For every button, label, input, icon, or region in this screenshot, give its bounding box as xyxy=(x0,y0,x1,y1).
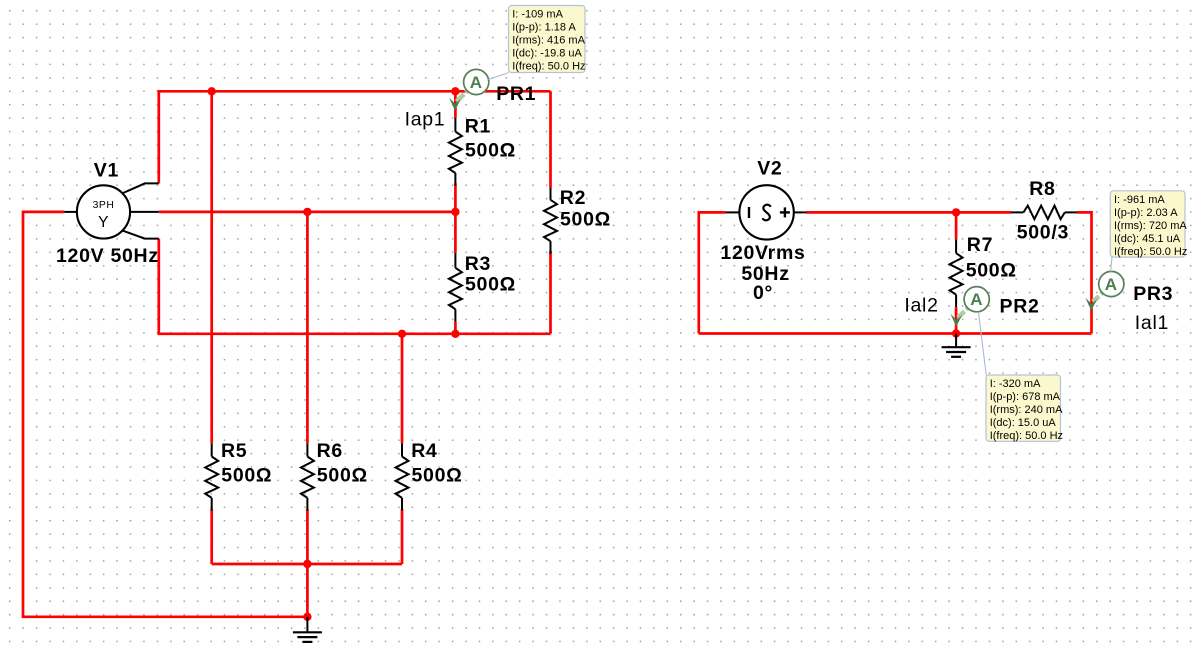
svg-text:A: A xyxy=(470,73,483,92)
svg-text:R4: R4 xyxy=(411,440,437,462)
wire V2 left to left rail and down xyxy=(699,212,726,333)
wire R3 top stub xyxy=(454,212,457,253)
svg-text:R5: R5 xyxy=(221,440,247,462)
callout connector PR1 xyxy=(488,73,509,80)
svg-text:A: A xyxy=(970,290,983,309)
junction connect rail / R6 xyxy=(303,560,311,568)
svg-text:A: A xyxy=(1105,275,1118,294)
svg-text:I: -320 mA: I: -320 mA xyxy=(990,378,1041,390)
junction bottom rail / R4 branch xyxy=(398,330,406,338)
svg-text:500Ω: 500Ω xyxy=(465,140,516,162)
svg-text:I(p-p): 678 mA: I(p-p): 678 mA xyxy=(990,391,1061,403)
wire V1 neutral to left edge, down and to ground rail xyxy=(23,212,307,617)
wire middle rail (V1 phase B to node R1/R3) xyxy=(159,211,456,214)
junction bottom rail / R7-ground xyxy=(952,329,960,337)
svg-text:I: -961 mA: I: -961 mA xyxy=(1114,194,1165,206)
svg-text:PR3: PR3 xyxy=(1133,283,1173,305)
svg-text:I(freq): 50.0 Hz: I(freq): 50.0 Hz xyxy=(1114,246,1187,258)
svg-text:500Ω: 500Ω xyxy=(560,209,611,231)
svg-text:Ial2: Ial2 xyxy=(904,295,938,317)
wire top rail (V1 phase A to R2 branch) xyxy=(159,91,551,183)
measurement callout PR2 xyxy=(986,375,1061,441)
ground symbol right circuit xyxy=(955,334,957,348)
wire bottom connect rail R5-R6-R4 xyxy=(212,563,402,566)
svg-text:0°: 0° xyxy=(753,282,773,304)
wire R4 bottom to connect rail xyxy=(401,509,404,564)
svg-text:I(dc): -19.8 uA: I(dc): -19.8 uA xyxy=(512,48,582,60)
svg-text:PR1: PR1 xyxy=(496,83,536,105)
svg-text:I(p-p): 1.18 A: I(p-p): 1.18 A xyxy=(512,22,576,34)
current probe PR3 xyxy=(1093,296,1099,301)
svg-text:500/3: 500/3 xyxy=(1017,222,1069,244)
resistor R7 xyxy=(955,239,957,253)
svg-text:120Vrms: 120Vrms xyxy=(720,242,805,264)
svg-text:500Ω: 500Ω xyxy=(966,260,1017,282)
svg-text:500Ω: 500Ω xyxy=(465,274,516,296)
svg-text:500Ω: 500Ω xyxy=(317,465,368,487)
wire R7 branch from top rail xyxy=(955,212,958,239)
svg-text:500Ω: 500Ω xyxy=(412,465,463,487)
resistor R6 xyxy=(306,443,308,456)
resistor R1 xyxy=(454,118,456,132)
resistor R5 xyxy=(211,443,213,456)
wire R3 bottom to bottom rail xyxy=(454,322,457,334)
wire R7 bottom to bottom rail xyxy=(955,307,958,333)
svg-text:120V 50Hz: 120V 50Hz xyxy=(56,245,159,267)
wire R1 bottom to middle node xyxy=(454,183,457,212)
wire R2 top stub xyxy=(549,91,552,188)
svg-text:R6: R6 xyxy=(317,440,343,462)
svg-text:PR2: PR2 xyxy=(1000,296,1040,318)
resistor R4 xyxy=(401,443,403,456)
svg-text:I: -109 mA: I: -109 mA xyxy=(512,9,563,21)
wire R6 bottom through connect rail to ground rail xyxy=(306,509,309,617)
svg-text:Iap1: Iap1 xyxy=(405,109,446,131)
resistor R3 xyxy=(454,253,456,268)
callout connector PR2 xyxy=(978,312,986,376)
wire bottom rail right circuit xyxy=(699,332,1092,335)
svg-text:R3: R3 xyxy=(465,253,491,275)
ground symbol left circuit xyxy=(306,617,308,633)
current probe PR2 xyxy=(958,311,965,317)
svg-text:3PH: 3PH xyxy=(93,200,115,211)
svg-text:V1: V1 xyxy=(94,159,119,181)
svg-text:R7: R7 xyxy=(967,234,993,256)
junction ground rail / R6 branch xyxy=(303,613,311,621)
svg-text:I(freq): 50.0 Hz: I(freq): 50.0 Hz xyxy=(512,61,585,73)
svg-text:Ial1: Ial1 xyxy=(1135,312,1169,334)
wire R2 bottom to bottom rail xyxy=(549,251,552,334)
wire R4 branch from bottom rail xyxy=(401,334,404,444)
svg-text:I(rms): 240 mA: I(rms): 240 mA xyxy=(990,404,1063,416)
svg-text:I(p-p): 2.03 A: I(p-p): 2.03 A xyxy=(1114,207,1178,219)
svg-text:R2: R2 xyxy=(560,187,586,209)
AC source V2 xyxy=(739,185,793,239)
wire V1 phase C down-left rail to bottom rail xyxy=(159,239,551,334)
svg-text:I(dc): 45.1 uA: I(dc): 45.1 uA xyxy=(1114,233,1181,245)
wire R5 branch from top rail xyxy=(210,91,213,443)
wire V2 right to R8 xyxy=(807,211,1012,214)
measurement callout PR1 xyxy=(509,6,586,73)
wire R1 top stub xyxy=(454,91,457,118)
resistor R8 xyxy=(1011,211,1023,213)
svg-text:I(rms): 720 mA: I(rms): 720 mA xyxy=(1114,220,1187,232)
svg-text:Y: Y xyxy=(98,214,109,231)
junction top rail / R7 branch xyxy=(952,208,960,216)
svg-text:500Ω: 500Ω xyxy=(221,465,272,487)
junction bottom rail / R3 xyxy=(451,330,459,338)
wire R8 to right rail and down xyxy=(1077,212,1092,333)
svg-text:R1: R1 xyxy=(465,116,491,138)
junction top rail / R1 (probe node) xyxy=(451,87,459,95)
callout connector PR3 xyxy=(1111,257,1112,271)
wire R5 bottom to connect rail xyxy=(210,509,213,564)
three-phase source V1 xyxy=(77,185,130,238)
svg-text:I(dc): 15.0 uA: I(dc): 15.0 uA xyxy=(990,417,1057,429)
junction middle rail / R1-R3 node xyxy=(451,208,459,216)
svg-text:V2: V2 xyxy=(757,158,782,180)
current probe PR1 xyxy=(457,94,465,101)
junction middle rail / R6 branch xyxy=(303,208,311,216)
measurement callout PR3 xyxy=(1110,191,1185,257)
svg-text:I(rms): 416 mA: I(rms): 416 mA xyxy=(512,35,585,47)
svg-text:I(freq): 50.0 Hz: I(freq): 50.0 Hz xyxy=(990,430,1063,442)
wire R6 branch from middle rail xyxy=(306,212,309,443)
resistor R2 xyxy=(550,188,552,200)
junction top rail / R5 branch xyxy=(208,87,216,95)
svg-text:R8: R8 xyxy=(1029,178,1055,200)
